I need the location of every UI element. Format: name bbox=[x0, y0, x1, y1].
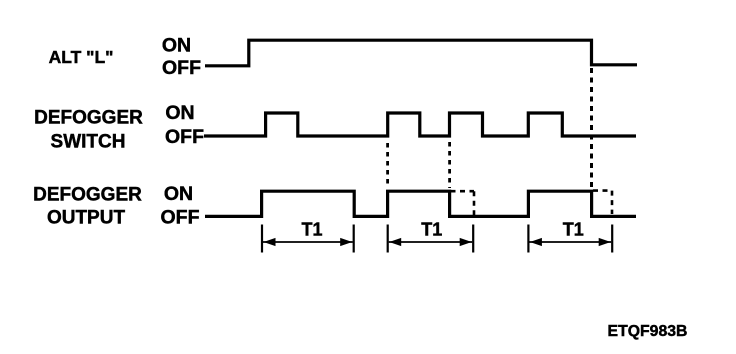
dashed ghost pulse top, output pulse 3 bbox=[593, 189, 612, 192]
svg-text:ETQF983B: ETQF983B bbox=[608, 323, 688, 340]
svg-text:OFF: OFF bbox=[161, 207, 200, 229]
svg-text:T1: T1 bbox=[421, 220, 442, 240]
dimension T1 #1 bbox=[262, 220, 354, 253]
dashed ghost falling edge at x=474 bbox=[473, 191, 476, 215]
svg-text:ON: ON bbox=[162, 35, 191, 57]
dashed ghost pulse top, output pulse 2 bbox=[451, 190, 475, 193]
waveform DEFOGGER OUTPUT wire bbox=[205, 191, 636, 216]
svg-text:DEFOGGER: DEFOGGER bbox=[33, 185, 142, 206]
svg-text:OFF: OFF bbox=[162, 57, 201, 79]
dashed vertical reference line at switch pulse 3 rising edge x=449.6 bbox=[448, 142, 451, 188]
svg-text:ON: ON bbox=[165, 102, 194, 124]
svg-text:OUTPUT: OUTPUT bbox=[47, 208, 126, 229]
svg-text:DEFOGGER: DEFOGGER bbox=[34, 108, 143, 129]
dimension T1 #3 bbox=[528, 220, 612, 253]
signal label DEFOGGER OUTPUT bbox=[33, 185, 142, 229]
svg-text:ON: ON bbox=[164, 183, 193, 205]
waveform DEFOGGER SWITCH wire bbox=[204, 113, 636, 136]
svg-text:SWITCH: SWITCH bbox=[51, 132, 126, 153]
dimension T1 #2 bbox=[388, 220, 474, 253]
dashed ghost falling edge at x=612 bbox=[611, 191, 614, 214]
svg-text:T1: T1 bbox=[563, 220, 584, 240]
svg-text:ALT "L": ALT "L" bbox=[49, 47, 114, 67]
signal label DEFOGGER SWITCH bbox=[34, 108, 143, 153]
dashed vertical reference line at switch pulse 2 rising edge x=387.5 bbox=[386, 143, 389, 187]
svg-text:T1: T1 bbox=[301, 220, 322, 240]
waveform ALT "L" wire bbox=[205, 40, 637, 66]
dashed vertical reference line at ALT "L" falling edge x=591.5 bbox=[590, 68, 593, 189]
svg-text:OFF: OFF bbox=[165, 126, 204, 148]
